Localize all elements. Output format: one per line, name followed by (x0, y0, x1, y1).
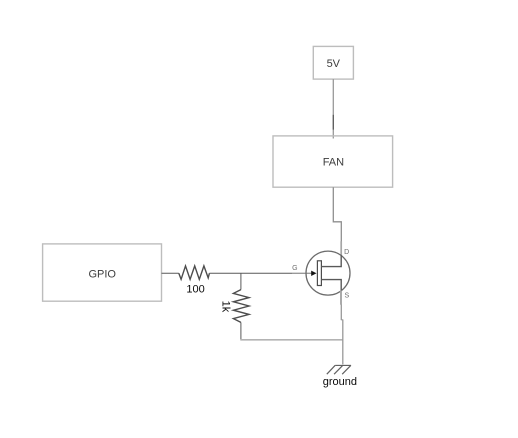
svg-text:ground: ground (323, 376, 357, 388)
wire bottom net to source S (240, 339, 342, 341)
pin 5V bottom / pin FAN top (332, 79, 334, 138)
power source 5V (313, 46, 353, 79)
pin label S (344, 292, 349, 299)
ground (327, 365, 351, 374)
value label 100 (186, 283, 204, 295)
wire resistor 100 to gate node (209, 272, 292, 274)
block FAN (273, 136, 393, 187)
svg-text:GPIO: GPIO (88, 269, 116, 281)
pin label G (292, 265, 297, 272)
svg-text:S: S (344, 292, 349, 299)
svg-text:5V: 5V (327, 58, 341, 70)
value label 1k (220, 301, 232, 313)
pin G of Q1 (292, 272, 312, 274)
transistor Q1 N-MOSFET (306, 251, 350, 295)
resistor R1 100 (179, 266, 210, 279)
pin D of Q1 (340, 241, 342, 255)
resistor R2 1k (233, 290, 249, 323)
block GPIO (43, 244, 162, 301)
wire GPIO to resistor 100 (162, 272, 179, 274)
svg-text:FAN: FAN (323, 157, 344, 169)
wire source S to ground (341, 305, 343, 365)
svg-text:100: 100 (186, 283, 204, 295)
net label ground (323, 376, 357, 388)
svg-text:D: D (344, 249, 349, 256)
wire 1k to bottom net (240, 322, 242, 340)
pin label D (344, 249, 349, 256)
node junction gate / 1k branch (240, 273, 242, 289)
wire 5V to FAN (332, 115, 334, 130)
wire FAN to drain D (333, 187, 341, 242)
pin S of Q1 (340, 291, 342, 305)
svg-text:1k: 1k (220, 301, 232, 313)
svg-text:G: G (292, 265, 297, 272)
